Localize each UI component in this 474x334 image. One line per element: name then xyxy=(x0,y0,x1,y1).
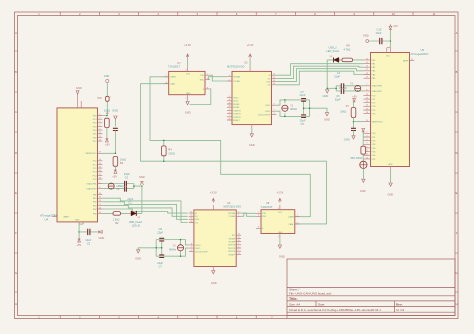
svg-text:12: 12 xyxy=(238,234,240,236)
svg-text:R2: R2 xyxy=(115,221,119,225)
power +5V above R9 xyxy=(362,129,365,147)
svg-text:RESET/PC6: RESET/PC6 xyxy=(85,153,97,155)
wire U7 S pin to gnd xyxy=(190,89,211,105)
svg-text:E: E xyxy=(456,191,458,195)
wire U7 RXD to U2 TXCAN crossover xyxy=(209,77,227,80)
svg-text:RXCAN: RXCAN xyxy=(228,212,236,215)
svg-text:C: C xyxy=(15,110,17,114)
svg-text:GND: GND xyxy=(135,256,141,260)
svg-text:USB_Fixed: USB_Fixed xyxy=(129,220,143,224)
svg-text:26: 26 xyxy=(99,170,101,172)
svg-text:RX1BF: RX1BF xyxy=(229,242,236,244)
svg-text:C2: C2 xyxy=(125,175,129,179)
svg-text:2: 2 xyxy=(366,132,367,134)
svg-text:XTAL2/PB7: XTAL2/PB7 xyxy=(372,90,383,93)
svg-text:GND: GND xyxy=(211,281,217,285)
node junction Y3 bottom xyxy=(180,255,182,257)
svg-text:7: 7 xyxy=(297,215,298,217)
svg-text:MCP2515-I/SO: MCP2515-I/SO xyxy=(224,205,242,209)
svg-text:B: B xyxy=(456,70,458,74)
node junction rail right xyxy=(309,107,311,109)
U2 pin stubs right xyxy=(272,75,277,85)
svg-text:Size: A4: Size: A4 xyxy=(289,302,300,306)
svg-text:14: 14 xyxy=(273,74,275,76)
power GND left of Y3 caps xyxy=(135,250,141,261)
power GND below U5 xyxy=(388,183,394,196)
port circle xyxy=(106,79,109,82)
svg-text:8: 8 xyxy=(99,187,100,189)
svg-text:GND: GND xyxy=(388,164,393,166)
svg-text:2: 2 xyxy=(229,75,230,77)
wire U2 OSC rails xyxy=(276,100,327,117)
LED V6 xyxy=(326,46,339,63)
svg-text:CLKOUT/SOF: CLKOUT/SOF xyxy=(195,251,209,253)
svg-text:5V0: 5V0 xyxy=(97,97,102,100)
svg-text:U6: U6 xyxy=(266,201,270,205)
svg-text:8MHz: 8MHz xyxy=(169,247,176,251)
svg-text:XTAL2/PB7: XTAL2/PB7 xyxy=(86,188,97,191)
wire SPI bundle U2 to U5 xyxy=(276,64,363,85)
svg-text:OSC1: OSC1 xyxy=(195,248,201,250)
wire C10 branch xyxy=(369,40,391,42)
svg-text:GND: GND xyxy=(278,232,283,234)
resistor R4 termination xyxy=(162,140,175,161)
node junction Y2 bottom xyxy=(357,90,359,92)
svg-text:+3.3V: +3.3V xyxy=(210,190,217,194)
svg-text:TX0RTS: TX0RTS xyxy=(228,245,236,247)
svg-text:KiCad E.D.A. eeschema 6.0.0+d: KiCad E.D.A. eeschema 6.0.0+dfsg+-036d5f… xyxy=(289,308,381,312)
svg-text:C8: C8 xyxy=(159,227,163,231)
svg-text:R4: R4 xyxy=(168,147,172,151)
svg-text:8: 8 xyxy=(207,87,208,89)
IC U5 ATmega328-P body xyxy=(371,48,429,167)
wire U3 OSC rails xyxy=(138,240,189,257)
node junction C3 xyxy=(78,231,80,233)
svg-text:GND: GND xyxy=(112,108,118,112)
svg-text:TX1RTS: TX1RTS xyxy=(228,248,236,250)
svg-text:5: 5 xyxy=(366,143,367,145)
U5 VCC stub top / GND stub bottom xyxy=(387,48,391,169)
power GND right of C3 xyxy=(99,230,105,240)
power GND above C11 xyxy=(112,108,118,126)
IC U3 MCP2515 body xyxy=(194,201,241,267)
svg-text:G: G xyxy=(455,271,457,275)
power +3.3V above U2 xyxy=(247,43,254,66)
svg-text:C7: C7 xyxy=(159,264,163,268)
power GND right of caps xyxy=(324,113,330,122)
node junction gnd xyxy=(141,185,143,187)
svg-text:7: 7 xyxy=(274,110,275,112)
svg-text:22pF: 22pF xyxy=(127,197,133,201)
svg-text:10uF: 10uF xyxy=(376,31,382,35)
node junction osc bottom xyxy=(284,116,286,118)
wire R7 to U5 reset xyxy=(354,121,364,123)
node junction C10 xyxy=(390,40,392,42)
svg-text:U4: U4 xyxy=(45,218,49,222)
svg-text:15: 15 xyxy=(190,215,192,217)
IC U6 TJA1051T body xyxy=(261,201,295,233)
svg-text:3: 3 xyxy=(278,208,279,210)
svg-text:15: 15 xyxy=(273,77,275,79)
U4 pin names xyxy=(64,115,98,221)
U6 pin numbers xyxy=(258,208,298,239)
frame zone ticks bottom xyxy=(60,316,287,319)
crystal Y1 8MHz xyxy=(282,105,298,112)
svg-text:GND: GND xyxy=(249,143,255,147)
svg-text:29: 29 xyxy=(99,152,101,154)
svg-text:2: 2 xyxy=(99,114,100,116)
U6 pin stubs xyxy=(256,205,300,238)
svg-text:4: 4 xyxy=(99,121,100,123)
node junction CANL-R4 xyxy=(163,160,165,162)
svg-text:4: 4 xyxy=(366,139,367,141)
svg-text:28: 28 xyxy=(366,112,368,114)
power GND at Y2 xyxy=(323,90,329,98)
power +5V above R7 xyxy=(352,95,357,108)
svg-text:E: E xyxy=(15,191,17,195)
svg-text:6: 6 xyxy=(297,222,298,224)
wire SPI bundle U4 to U3 xyxy=(102,198,187,222)
svg-text:7: 7 xyxy=(229,115,230,117)
svg-text:AREF: AREF xyxy=(403,59,409,62)
svg-text:6: 6 xyxy=(238,246,239,248)
svg-text:22pF: 22pF xyxy=(300,93,306,97)
svg-text:C5: C5 xyxy=(301,122,305,126)
wire U7 TXD to U2 RXCAN crossover xyxy=(210,75,227,81)
capacitor C3 10uF xyxy=(85,229,91,246)
U2 VDD GND stubs xyxy=(250,67,252,129)
svg-text:R3: R3 xyxy=(120,161,124,165)
svg-text:8: 8 xyxy=(274,104,275,106)
wire to C3 xyxy=(79,231,99,233)
svg-text:7: 7 xyxy=(238,250,239,252)
svg-text:MCP2515-I/SO: MCP2515-I/SO xyxy=(227,65,245,69)
svg-text:TXCAN: TXCAN xyxy=(228,215,235,218)
svg-text:29: 29 xyxy=(366,120,368,122)
svg-text:LED_B: LED_B xyxy=(132,223,140,227)
svg-text:C3: C3 xyxy=(87,242,91,246)
svg-text:OSC2: OSC2 xyxy=(195,245,201,247)
node junction gnd right xyxy=(326,88,328,90)
svg-text:11: 11 xyxy=(238,237,240,239)
svg-text:CLKOUT/SOF: CLKOUT/SOF xyxy=(258,114,272,116)
svg-text:C5: C5 xyxy=(336,94,340,98)
svg-text:10kΩ: 10kΩ xyxy=(340,109,346,113)
svg-text:U7: U7 xyxy=(177,61,181,65)
wire LED cathode up to gnd xyxy=(141,186,143,213)
wire C11 to RESET pin xyxy=(102,131,115,154)
U5 pin numbers xyxy=(366,58,413,159)
capacitor C10 10uF xyxy=(376,28,382,45)
capacitor C11 on reset xyxy=(113,128,118,130)
power +3.3V above U6 xyxy=(276,190,283,202)
svg-text:1: 1 xyxy=(110,97,111,99)
svg-text:+5V: +5V xyxy=(393,24,398,28)
svg-text:11: 11 xyxy=(366,150,368,152)
svg-text:U2: U2 xyxy=(244,61,248,65)
svg-text:17: 17 xyxy=(99,204,101,206)
power GND below U3 xyxy=(211,271,217,286)
svg-text:C10: C10 xyxy=(377,28,382,32)
node junction crystal top xyxy=(110,183,112,185)
wire caps to gnd rail right xyxy=(327,86,341,91)
power GND below U7 xyxy=(185,100,191,115)
svg-text:6: 6 xyxy=(366,146,367,148)
svg-text:3: 3 xyxy=(366,135,367,137)
power +5V below R3 xyxy=(112,170,117,178)
power GND below U6 xyxy=(278,238,285,258)
IC U7 TJA1051T body xyxy=(168,61,205,95)
U2 pin names xyxy=(233,75,271,122)
svg-text:13: 13 xyxy=(99,139,101,141)
resistor R2 1.5k xyxy=(113,212,121,226)
svg-text:C7: C7 xyxy=(301,90,305,94)
U2 pin numbers xyxy=(228,74,275,121)
svg-text:17: 17 xyxy=(366,69,368,71)
power flag GND above U4 xyxy=(76,86,82,94)
capacitor C5 22pF xyxy=(300,115,307,126)
svg-text:24: 24 xyxy=(366,97,368,99)
svg-text:OSC1: OSC1 xyxy=(265,105,271,107)
svg-text:8: 8 xyxy=(366,89,367,91)
svg-text:+5V: +5V xyxy=(112,174,117,178)
node junction Y2 top xyxy=(357,85,359,87)
svg-text:17: 17 xyxy=(228,118,230,120)
resistor R6 4.7k xyxy=(342,44,353,62)
svg-text:Id: 1/1: Id: 1/1 xyxy=(396,308,405,312)
U4 pin stub left side (AREF) xyxy=(53,216,57,218)
svg-text:XTAL1/PB6: XTAL1/PB6 xyxy=(372,85,383,88)
title block xyxy=(287,259,455,316)
svg-text:8MHz: 8MHz xyxy=(290,107,297,111)
svg-text:6: 6 xyxy=(229,112,230,114)
U3 pin numbers xyxy=(190,212,239,255)
svg-text:C4: C4 xyxy=(337,71,341,75)
svg-text:TXD: TXD xyxy=(200,75,205,77)
svg-text:+3.3V: +3.3V xyxy=(276,190,283,194)
svg-text:TJA1051T: TJA1051T xyxy=(261,205,273,209)
svg-text:Rev:: Rev: xyxy=(396,302,403,306)
svg-text:4: 4 xyxy=(207,78,208,80)
U4 pin numbers xyxy=(54,114,101,217)
svg-text:XTAL1/PB6: XTAL1/PB6 xyxy=(86,182,97,185)
svg-text:RX1BF: RX1BF xyxy=(233,107,240,109)
svg-text:CANL: CANL xyxy=(288,223,294,226)
U3 pin stubs xyxy=(189,205,241,270)
wire CANL net TJA1 to TJA2 xyxy=(141,84,327,224)
capacitor C7 22pF xyxy=(300,90,307,101)
svg-text:GND: GND xyxy=(323,94,329,98)
U2 pin stubs left xyxy=(227,67,277,129)
power GND port left of C10 xyxy=(363,33,369,42)
svg-text:GND: GND xyxy=(388,192,394,196)
svg-text:10kΩ: 10kΩ xyxy=(120,157,126,161)
svg-text:8: 8 xyxy=(258,227,259,229)
svg-text:2: 2 xyxy=(278,237,279,239)
IC U4 ATmega328-P body xyxy=(40,108,98,222)
svg-text:GND: GND xyxy=(104,75,110,78)
svg-text:TX2RTS: TX2RTS xyxy=(228,251,236,253)
node junction CANH-R4 xyxy=(163,140,165,142)
svg-text:GND: GND xyxy=(186,93,191,95)
svg-text:CANH: CANH xyxy=(288,216,294,219)
U4 pin stubs right side xyxy=(53,94,103,224)
jumper 5V0 net tie xyxy=(97,96,111,101)
svg-text:22pF: 22pF xyxy=(157,231,163,235)
svg-text:RXCAN: RXCAN xyxy=(233,76,241,79)
svg-text:3: 3 xyxy=(229,96,230,98)
svg-text:12: 12 xyxy=(366,154,368,156)
svg-text:SCK: SCK xyxy=(266,82,271,84)
svg-text:14: 14 xyxy=(366,58,368,60)
svg-text:D: D xyxy=(456,151,458,155)
svg-text:GND: GND xyxy=(363,33,369,37)
svg-text:CANL: CANL xyxy=(170,83,176,86)
U6 pin names xyxy=(262,212,295,234)
svg-text:RESET: RESET xyxy=(233,120,240,122)
svg-text:RESET: RESET xyxy=(229,254,236,256)
svg-text:3: 3 xyxy=(186,70,187,72)
U4 GND pin stubs bottom xyxy=(79,222,83,224)
U4 VCC pin stub top xyxy=(78,94,82,108)
svg-text:3: 3 xyxy=(274,113,275,115)
svg-text:VCC: VCC xyxy=(386,56,391,58)
svg-text:TX2RTS: TX2RTS xyxy=(233,117,241,119)
power +5V below R5 xyxy=(105,139,110,147)
svg-text:8: 8 xyxy=(191,243,192,245)
svg-text:3: 3 xyxy=(99,118,100,120)
svg-text:RESET/PC6: RESET/PC6 xyxy=(372,122,384,124)
svg-text:16MHz: 16MHz xyxy=(339,86,348,90)
IC U2 MCP2515 body xyxy=(227,61,272,125)
svg-text:GND: GND xyxy=(324,117,330,121)
buzzer SP1 xyxy=(360,154,367,179)
power +5V below gnd pins xyxy=(77,239,82,247)
svg-text:15: 15 xyxy=(366,62,368,64)
svg-text:19: 19 xyxy=(366,77,368,79)
svg-text:16: 16 xyxy=(190,221,192,223)
svg-text:26: 26 xyxy=(366,105,368,107)
svg-text:1: 1 xyxy=(207,74,208,76)
svg-text:D: D xyxy=(15,151,17,155)
svg-text:23: 23 xyxy=(366,94,368,96)
svg-text:3: 3 xyxy=(191,250,192,252)
svg-text:Title:: Title: xyxy=(289,297,298,301)
node junction caps mid xyxy=(133,185,135,187)
capacitor C6 22pF xyxy=(157,227,164,241)
U7 pin numbers xyxy=(166,70,208,100)
svg-text:27: 27 xyxy=(99,174,101,176)
svg-text:Date:: Date: xyxy=(318,302,325,306)
svg-text:SCK: SCK xyxy=(195,219,200,221)
node junction R5 top xyxy=(106,115,108,117)
svg-text:CANH: CANH xyxy=(170,76,176,79)
svg-text:13: 13 xyxy=(190,218,192,220)
wire CANH net TJA1 to TJA2 xyxy=(150,77,310,217)
svg-text:GND: GND xyxy=(76,86,82,90)
svg-text:10: 10 xyxy=(238,240,240,242)
svg-text:+5V: +5V xyxy=(105,142,110,146)
power +3.3V above U3 xyxy=(210,190,217,202)
svg-text:22pF: 22pF xyxy=(300,118,306,122)
svg-text:130Ω: 130Ω xyxy=(168,151,175,155)
svg-text:4.7kΩ: 4.7kΩ xyxy=(344,47,351,51)
svg-text:OSC2: OSC2 xyxy=(233,98,239,100)
crystal Y3 8MHz xyxy=(169,245,183,252)
svg-text:11: 11 xyxy=(229,102,231,104)
svg-text:2: 2 xyxy=(186,98,187,100)
wire R2 LED branch xyxy=(102,212,141,214)
svg-text:RX0BF: RX0BF xyxy=(233,104,240,106)
svg-text:2: 2 xyxy=(238,212,239,214)
resistor R7 10k xyxy=(340,105,356,128)
svg-text:+3.3V: +3.3V xyxy=(247,43,254,47)
svg-text:U3: U3 xyxy=(227,201,231,205)
svg-text:AREF: AREF xyxy=(64,216,70,219)
LED D1 xyxy=(129,211,143,228)
svg-text:TX0RTS: TX0RTS xyxy=(233,110,241,112)
capacitor C7 22pF xyxy=(157,255,164,269)
svg-text:4: 4 xyxy=(258,215,259,217)
svg-text:14: 14 xyxy=(99,193,101,195)
svg-text:TXCAN: TXCAN xyxy=(233,80,240,83)
node junction caps mid right xyxy=(335,88,337,90)
svg-text:7: 7 xyxy=(166,75,167,77)
svg-text:10uF: 10uF xyxy=(85,238,91,242)
svg-text:22pF: 22pF xyxy=(157,261,163,265)
svg-text:6: 6 xyxy=(166,82,167,84)
svg-text:21: 21 xyxy=(411,59,413,61)
svg-text:560 130Ω: 560 130Ω xyxy=(351,156,362,160)
svg-text:VCC: VCC xyxy=(186,74,191,76)
U5 pin names xyxy=(372,56,410,167)
svg-text:OSC1: OSC1 xyxy=(233,101,239,103)
node junction caps mid bottom xyxy=(161,247,163,249)
wire U3 RXD-TXD crossover to U6 xyxy=(241,213,256,216)
svg-text:18: 18 xyxy=(99,207,101,209)
resistor R9 xyxy=(351,146,366,160)
wire U3 TXD-RXD crossover to U6 xyxy=(241,213,256,216)
power +3.3V above U7 xyxy=(184,43,191,66)
U5 AREF stub right xyxy=(410,60,415,62)
svg-text:14: 14 xyxy=(190,212,192,214)
svg-text:GND: GND xyxy=(279,255,285,259)
power +5V above U5 xyxy=(389,24,398,47)
svg-text:6: 6 xyxy=(99,129,100,131)
svg-text:RX0BF: RX0BF xyxy=(229,238,236,240)
svg-text:A: A xyxy=(15,31,17,35)
node junction crystal bottom xyxy=(110,188,112,190)
node junction RESET xyxy=(115,153,117,155)
svg-text:13: 13 xyxy=(366,157,368,159)
svg-text:12: 12 xyxy=(99,136,101,138)
svg-text:GND: GND xyxy=(185,111,191,115)
svg-text:5: 5 xyxy=(229,109,230,111)
svg-text:7: 7 xyxy=(191,247,192,249)
svg-text:G: G xyxy=(15,271,17,275)
svg-text:GND: GND xyxy=(75,220,80,222)
wire port to pin PD0 xyxy=(102,83,107,116)
svg-text:TX1RTS: TX1RTS xyxy=(233,114,241,116)
svg-text:+5V: +5V xyxy=(77,243,82,247)
svg-text:7: 7 xyxy=(366,84,367,86)
svg-text:GND: GND xyxy=(99,236,105,240)
svg-text:19: 19 xyxy=(99,212,101,214)
U5 pin stubs left side xyxy=(363,48,414,169)
wire U5 gnd down xyxy=(390,169,392,183)
svg-text:TJA1051T: TJA1051T xyxy=(168,65,180,69)
node junction Y3 top xyxy=(180,239,182,241)
